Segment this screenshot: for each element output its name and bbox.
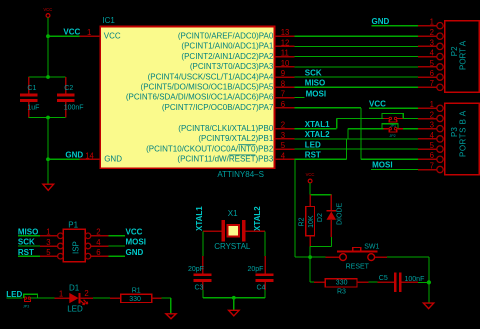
svg-text:(PCINT7/ICP/OC0B/ADC7)PA7: (PCINT7/ICP/OC0B/ADC7)PA7	[162, 103, 274, 112]
pin 12 stub	[275, 45, 295, 47]
wire PA7 to P3 pin 6	[361, 158, 418, 160]
P1 pin 1	[40, 235, 58, 237]
svg-text:RST: RST	[18, 248, 34, 257]
P1 pin 4	[91, 245, 109, 247]
wire junction to ground	[233, 298, 235, 311]
wire PA2 to P2 pin 4	[294, 56, 418, 58]
svg-text:R3: R3	[337, 288, 346, 295]
diode D1 LED	[55, 297, 70, 299]
P3 pin 6	[418, 158, 437, 160]
svg-text:(PCINT3/T0/ADC3)PA3: (PCINT3/T0/ADC3)PA3	[190, 62, 274, 71]
wire XTAL1 down to C3	[202, 231, 204, 256]
svg-text:4: 4	[96, 238, 101, 247]
node RST junction	[308, 255, 312, 259]
wire bottom rail R2/D2	[310, 246, 331, 248]
wire SCK to P2 pin 6	[294, 76, 418, 78]
P3 pin 5	[418, 148, 437, 150]
pin 10 stub	[275, 66, 295, 68]
wire VCC label stub	[108, 235, 125, 237]
svg-text:X1: X1	[228, 209, 238, 218]
wire XTAL1 jog up	[336, 119, 338, 129]
wire JP2 to P3 pin 3	[403, 128, 418, 130]
wire RST down to reset circuit	[294, 159, 296, 257]
svg-text:GND: GND	[372, 17, 390, 26]
svg-text:ATTINY84–S: ATTINY84–S	[217, 170, 264, 179]
svg-text:1uF: 1uF	[27, 105, 39, 112]
svg-text:JP2: JP2	[389, 134, 395, 138]
power symbol VCC (reset circuit)	[308, 179, 312, 183]
svg-text:2: 2	[281, 121, 285, 130]
svg-text:3: 3	[281, 131, 285, 140]
svg-text:ISP: ISP	[72, 241, 81, 254]
svg-text:D2: D2	[317, 213, 324, 222]
P1 pin 6	[91, 255, 109, 257]
wire MOSI label stub	[108, 245, 125, 247]
wire right rail down	[428, 257, 430, 282]
svg-text:VCC: VCC	[369, 99, 386, 108]
svg-text:2: 2	[96, 228, 100, 237]
wire crystal ground rail	[203, 297, 265, 299]
svg-text:3: 3	[46, 238, 50, 247]
wire SCK label stub	[18, 245, 40, 247]
svg-text:3: 3	[430, 121, 434, 130]
wire cap top rail	[29, 76, 66, 78]
wire JP2 bypass loop	[382, 124, 398, 129]
wire RST jog up	[346, 139, 348, 159]
pin 1 stub	[80, 35, 101, 37]
wire MISO label stub	[18, 235, 40, 237]
pin 5 stub	[275, 148, 295, 150]
svg-text:6: 6	[430, 151, 434, 160]
node crystal rail junction	[232, 296, 236, 300]
svg-text:IC1: IC1	[102, 16, 115, 25]
resistor R2	[309, 195, 311, 207]
wire C3 to rail	[202, 290, 204, 298]
P3 pin 4	[418, 138, 437, 140]
svg-text:MOSI: MOSI	[372, 161, 392, 170]
svg-text:1: 1	[46, 228, 50, 237]
svg-text:VCC: VCC	[104, 31, 121, 40]
jumper JP1	[384, 118, 389, 120]
jumper JP3	[24, 297, 26, 299]
diode D2	[330, 195, 332, 211]
svg-text:11: 11	[281, 49, 289, 58]
svg-text:VCC: VCC	[43, 7, 52, 12]
svg-text:5: 5	[430, 59, 435, 68]
wire PA7 vertical	[360, 108, 362, 160]
LED arrows	[81, 301, 85, 305]
wire R1 to ground drop	[162, 297, 171, 299]
wire MOSI stub at pin 7	[294, 97, 304, 99]
capacitor C5	[377, 281, 394, 283]
svg-text:5: 5	[430, 141, 435, 150]
pin 4 stub	[275, 158, 295, 160]
wire GND stem down	[47, 159, 49, 184]
svg-text:1: 1	[430, 100, 434, 109]
svg-text:1: 1	[430, 18, 434, 27]
capacitor C2	[65, 77, 67, 94]
pin 9 stub	[275, 76, 295, 78]
wire VCC top rail to diode	[310, 194, 331, 196]
svg-text:8: 8	[281, 79, 285, 88]
svg-text:7: 7	[430, 161, 434, 170]
svg-text:7: 7	[281, 90, 285, 99]
ground symbol (C5)	[423, 303, 433, 309]
wire LED label stub	[6, 297, 22, 299]
wire MISO to P2 pin 7	[294, 86, 418, 88]
svg-text:330: 330	[336, 280, 348, 287]
capacitor C1	[28, 77, 30, 94]
svg-text:SCK: SCK	[18, 238, 35, 247]
svg-text:1: 1	[59, 290, 63, 299]
svg-text:XTAL2: XTAL2	[253, 206, 262, 231]
svg-text:2: 2	[84, 289, 88, 298]
wire PA1 to P2 pin 3	[294, 45, 418, 47]
wire XTAL2 to JP2	[348, 128, 384, 130]
svg-text:(PCINT8/CLKI/XTAL1)PB0: (PCINT8/CLKI/XTAL1)PB0	[178, 124, 274, 133]
svg-text:VCC: VCC	[63, 27, 80, 36]
svg-text:(PCINT0/AREF/ADC0)PA0: (PCINT0/AREF/ADC0)PA0	[178, 31, 274, 40]
svg-text:R2: R2	[299, 217, 306, 226]
svg-text:R1: R1	[132, 287, 141, 294]
pin 8 stub	[275, 86, 295, 88]
P2 pin 3	[418, 45, 437, 47]
wire LED to P3 pin 5	[294, 148, 418, 150]
P2 pin 7	[418, 86, 437, 88]
svg-text:(PCINT11/dW/RESET)PB3: (PCINT11/dW/RESET)PB3	[177, 155, 273, 164]
wire PA7 horizontal	[294, 107, 361, 109]
wire diode bottom	[330, 237, 332, 247]
svg-text:PORT A: PORT A	[459, 40, 468, 70]
wire RST label stub	[18, 255, 40, 257]
node cap bottom rail junction	[46, 116, 50, 120]
node C5 junction	[427, 280, 431, 284]
svg-text:P2: P2	[450, 46, 459, 56]
wire R3 to C5	[368, 281, 377, 283]
svg-text:C5: C5	[379, 275, 388, 282]
svg-text:C1: C1	[27, 85, 36, 92]
svg-text:MOSI: MOSI	[306, 90, 326, 99]
P1 pin 2	[91, 235, 109, 237]
wire GND rail down	[47, 118, 49, 160]
pin 13 stub	[275, 35, 295, 37]
svg-text:GND: GND	[104, 155, 122, 164]
node cap top rail junction	[46, 75, 50, 79]
wire JP3 to D1	[30, 297, 54, 299]
svg-text:20pF: 20pF	[248, 266, 264, 273]
svg-text:5: 5	[281, 141, 286, 150]
svg-text:JP3: JP3	[23, 304, 29, 308]
svg-text:P3: P3	[450, 127, 459, 137]
pin 7 stub	[275, 97, 295, 99]
svg-text:VCC: VCC	[306, 172, 315, 177]
svg-text:XTAL2: XTAL2	[305, 130, 330, 139]
svg-text:(PCINT1/AIN0/ADC1)PA1: (PCINT1/AIN0/ADC1)PA1	[181, 42, 273, 51]
P2 pin 1	[418, 25, 437, 27]
node VCC junction	[46, 34, 50, 38]
jumper JP2	[384, 128, 389, 130]
connector P2 body	[445, 21, 480, 93]
svg-text:5: 5	[46, 248, 51, 257]
resistor R3	[314, 281, 325, 283]
P1 pin 3	[40, 245, 58, 247]
connector P3 body	[445, 103, 480, 175]
wire XTAL2 jog up	[347, 129, 349, 139]
P2 pin 5	[418, 66, 437, 68]
svg-text:RESET: RESET	[346, 264, 370, 271]
svg-text:(PCINT2/AIN1/ADC2)PA2: (PCINT2/AIN1/ADC2)PA2	[181, 52, 273, 61]
pin 2 stub	[275, 128, 295, 130]
wire RST row to switch	[295, 256, 325, 258]
svg-text:(PCINT5/DO/MISO/OC1B/ADC5)PA5: (PCINT5/DO/MISO/OC1B/ADC5)PA5	[141, 83, 274, 92]
svg-text:6: 6	[281, 100, 285, 109]
wire GND label stub	[108, 255, 125, 257]
wire JP1 bypass loop	[382, 113, 403, 118]
svg-text:(PCINT4/USCK/SCL/T1/ADC4)PA4: (PCINT4/USCK/SCL/T1/ADC4)PA4	[148, 72, 274, 81]
svg-text:4: 4	[430, 49, 435, 58]
svg-text:GND: GND	[65, 151, 83, 160]
ground symbol (left)	[43, 184, 54, 190]
svg-text:4: 4	[281, 151, 286, 160]
pin 3 stub	[275, 138, 295, 140]
svg-text:SW1: SW1	[364, 243, 379, 250]
wire VCC stem	[309, 183, 311, 195]
svg-text:P1: P1	[68, 221, 78, 230]
wire RST jog to P3 pin 4	[347, 138, 419, 140]
ground symbol (R1)	[166, 314, 176, 319]
P1 pin 5	[40, 255, 58, 257]
svg-text:CRYSTAL: CRYSTAL	[214, 242, 251, 251]
svg-text:10K: 10K	[308, 215, 315, 228]
svg-text:RST: RST	[305, 151, 321, 160]
svg-text:14: 14	[85, 151, 94, 160]
wire JP3 bypass loop	[24, 294, 38, 298]
wire switch to right rail	[387, 256, 429, 258]
svg-text:GND: GND	[126, 248, 144, 257]
P2 pin 6	[418, 76, 437, 78]
wire PA3 to P2 pin 5	[294, 66, 418, 68]
switch SW1	[326, 256, 340, 258]
P3 pin 7	[418, 169, 437, 171]
wire cap bottom rail	[29, 117, 66, 119]
wire GND to IC pin 14	[48, 158, 79, 160]
svg-text:MISO: MISO	[18, 227, 38, 236]
P3 pin 2	[418, 118, 437, 120]
svg-text:9: 9	[281, 69, 285, 78]
svg-text:(PCINT6/SDA/DI/MOSI/OC1A/ADC6): (PCINT6/SDA/DI/MOSI/OC1A/ADC6)PA6	[126, 93, 274, 102]
svg-text:D1: D1	[69, 284, 80, 293]
svg-text:LED: LED	[67, 304, 83, 313]
svg-text:XTAL1: XTAL1	[305, 120, 330, 129]
wire C4 to rail	[264, 290, 266, 298]
svg-text:C4: C4	[257, 285, 266, 292]
wire down to RST node	[309, 247, 311, 258]
pin 6 stub	[275, 107, 295, 109]
wire XTAL1 to JP1	[337, 118, 384, 120]
wire JP1 to P3 pin 2	[403, 118, 418, 120]
wire C5 to junction	[418, 281, 429, 283]
svg-text:MOSI: MOSI	[126, 238, 146, 247]
svg-text:13: 13	[281, 28, 290, 37]
svg-text:12: 12	[281, 38, 290, 47]
svg-text:C3: C3	[195, 285, 204, 292]
wire XTAL1 from IC pin 2	[294, 128, 336, 130]
P2 pin 4	[418, 56, 437, 58]
svg-text:4: 4	[430, 131, 435, 140]
svg-text:PORTS B A: PORTS B A	[459, 110, 468, 157]
wire PA0 to P2 pin 2	[294, 35, 418, 37]
P3 pin 1	[418, 107, 437, 109]
wire XTAL2 down to C4	[264, 231, 266, 256]
wire D1 to R1	[93, 297, 110, 299]
svg-text:LED: LED	[305, 140, 321, 149]
svg-text:DIODE: DIODE	[337, 203, 344, 226]
svg-text:20pF: 20pF	[188, 266, 204, 273]
wire junction to ground	[428, 282, 430, 303]
svg-text:330: 330	[129, 296, 141, 303]
svg-text:SCK: SCK	[305, 68, 322, 77]
connector P1 body	[63, 229, 85, 261]
capacitor C4	[264, 256, 266, 274]
crystal X1	[203, 230, 222, 232]
wire RST from IC pin 4	[294, 158, 346, 160]
wire down to ground	[170, 298, 172, 314]
power symbol VCC (top left)	[46, 14, 50, 18]
svg-text:6: 6	[96, 248, 100, 257]
svg-text:VCC: VCC	[126, 227, 143, 236]
svg-text:3: 3	[430, 38, 434, 47]
node GND junction	[46, 157, 50, 161]
svg-text:1: 1	[87, 28, 91, 37]
svg-text:2: 2	[430, 28, 434, 37]
svg-text:(PCINT10/CKOUT/OC0A/INT0)PB2: (PCINT10/CKOUT/OC0A/INT0)PB2	[146, 144, 274, 153]
wire VCC to IC pin 1	[48, 35, 80, 37]
IC U1 body ATTINY84-S	[100, 26, 274, 168]
svg-text:6: 6	[430, 69, 434, 78]
svg-text:10: 10	[281, 59, 290, 68]
pin 11 stub	[275, 56, 295, 58]
wire MOSI to P3 pin 7	[371, 169, 418, 171]
P3 pin 3	[418, 128, 437, 130]
svg-text:C2: C2	[64, 85, 73, 92]
wire VCC stem	[47, 17, 49, 36]
wire XTAL2 from IC pin 3	[294, 138, 348, 140]
wire to R3	[310, 281, 314, 283]
ground symbol (crystal)	[229, 310, 239, 316]
svg-text:7: 7	[430, 79, 434, 88]
svg-text:100nF: 100nF	[64, 105, 84, 112]
wire GND to P2 pin 1	[372, 25, 419, 27]
capacitor C3	[202, 256, 204, 274]
svg-text:MISO: MISO	[305, 79, 325, 88]
wire VCC rail down	[47, 36, 49, 77]
resistor R1	[110, 297, 121, 299]
svg-text:XTAL1: XTAL1	[195, 206, 204, 231]
svg-text:2: 2	[430, 110, 434, 119]
P2 pin 2	[418, 35, 437, 37]
pin 14 stub	[79, 158, 100, 160]
svg-text:(PCINT9/XTAL2)PB1: (PCINT9/XTAL2)PB1	[198, 134, 274, 143]
wire VCC to P3 pin 1	[369, 107, 418, 109]
wire RST node down to R3	[309, 257, 311, 282]
